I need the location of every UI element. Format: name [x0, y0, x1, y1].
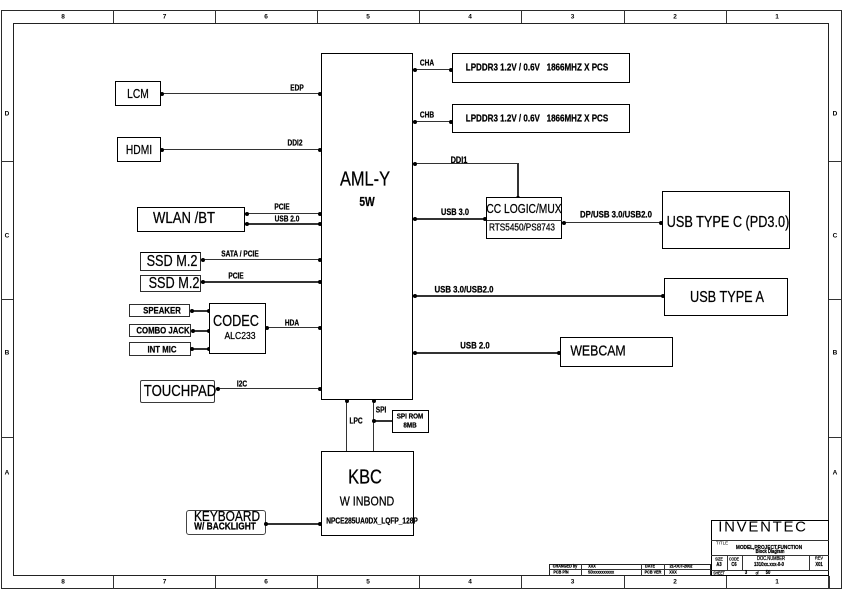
zone number 7 bottom: [163, 579, 167, 586]
zone number 6 top: [264, 13, 268, 20]
wire DP/USB3.0/USB2.0: [562, 222, 662, 223]
label COMBO JACK: [136, 325, 189, 336]
title block X01 value: [815, 562, 822, 568]
junction spi-branch: [372, 419, 376, 423]
zone number 1 top: [775, 13, 779, 20]
label W INBOND: [340, 493, 394, 508]
junction webcam-in: [557, 351, 561, 355]
label WLAN /BT: [153, 210, 215, 228]
junction intmic: [190, 347, 194, 351]
net label USB 3.0/USB2.0: [435, 284, 494, 295]
net label CHB: [420, 110, 434, 119]
revision table pcb pn value: [588, 570, 614, 575]
block SSD M.2 first: [140, 252, 201, 271]
border tick bottom 2: [215, 576, 216, 589]
zone letter A right: [833, 470, 838, 477]
zone number 4 bottom: [468, 579, 472, 586]
net label USB 2.0 webcam: [460, 340, 489, 351]
junction SSD2: [201, 280, 205, 284]
zone number 1 bottom: [775, 579, 779, 586]
wire SPI branch to ROM: [374, 420, 393, 422]
label W/ BACKLIGHT: [194, 522, 256, 533]
net label SPI: [375, 405, 386, 414]
zone number 3 top: [571, 13, 575, 20]
label USB TYPE A: [690, 289, 764, 307]
zone number 2 bottom: [673, 579, 677, 586]
revision table mid horizontal: [549, 569, 711, 570]
zone letter D right: [833, 111, 838, 118]
junction usba-in: [661, 294, 665, 298]
block SSD M.2 second: [140, 275, 201, 292]
label HDMI: [126, 143, 152, 157]
title block divider doc/rev: [809, 555, 810, 570]
border segment bottom right: [828, 576, 829, 589]
border tick bottom 7: [726, 576, 727, 589]
label 8MB: [404, 420, 417, 429]
wire CHA: [413, 69, 452, 70]
block LPDDR3 channel A: [452, 53, 630, 83]
border tick top 4: [419, 10, 420, 23]
junction touchpad: [216, 387, 220, 391]
label RTS5450/PS8743: [489, 223, 555, 234]
title block sheet number 3: [745, 570, 747, 576]
zone number 2 top: [673, 13, 677, 20]
net label USB 3.0: [441, 207, 469, 217]
junction PCIE2-SoC: [318, 280, 322, 284]
revision table divider 3: [664, 564, 665, 576]
wire PCIE to SSD2: [201, 281, 321, 283]
wire USB 3.0/USB2.0: [413, 295, 665, 296]
wire DDI1 horizontal: [413, 163, 519, 164]
title block A3 value: [716, 562, 721, 568]
junction codec-hda: [265, 326, 269, 330]
revision table date value: [670, 564, 693, 569]
zone letter A left: [5, 470, 10, 477]
title block REV label: [815, 556, 823, 561]
zone letter C right: [833, 233, 838, 240]
wire speaker to codec: [191, 310, 210, 312]
title block DOC.NUMBER label: [757, 556, 785, 562]
net label USB 2.0 wlan: [275, 214, 300, 223]
title block SIZE label: [715, 556, 723, 561]
wire USB2.0 to WLAN: [245, 223, 322, 225]
junction codec-spk: [207, 309, 211, 313]
zone letter B left: [5, 350, 10, 357]
junction SATA-SoC: [318, 258, 322, 262]
revision table PCB P/N: [553, 570, 568, 575]
junction kb-kbc: [318, 522, 322, 526]
border tick top 2: [215, 10, 216, 23]
junction chb-SoC: [413, 120, 417, 124]
junction EDP-SoC: [318, 92, 322, 96]
revision table PCB VER: [645, 570, 662, 575]
title block line under logo: [711, 540, 829, 541]
wire combojack to codec: [192, 330, 210, 332]
border tick left 3: [1, 437, 13, 438]
zone number 5 top: [366, 13, 370, 20]
net label DP/USB 3.0/USB2.0: [580, 210, 652, 221]
title block INVENTEC logo: [718, 519, 807, 536]
junction usb3-cc: [483, 217, 487, 221]
block CC LOGIC/MUX U3: [486, 197, 562, 239]
block TOUCHPAD: [140, 380, 215, 403]
junction DDI2-SoC: [318, 148, 322, 152]
title block Block Diagram: [756, 549, 785, 555]
block CODEC U2 ALC233: [209, 303, 266, 354]
zone letter D left: [5, 111, 10, 118]
wire keyboard to KBC: [265, 523, 321, 525]
label INT MIC: [148, 344, 177, 355]
block SPI ROM U4: [392, 410, 429, 433]
junction ddi1-cc: [516, 196, 520, 200]
wire intmic to codec: [191, 348, 209, 350]
net label DDI1: [450, 155, 467, 165]
junction codec-combo: [207, 329, 211, 333]
label SPEAKER: [143, 305, 181, 316]
wire USB 3.0: [413, 218, 487, 220]
zone number 6 bottom: [264, 579, 268, 586]
net label LPC: [349, 417, 362, 426]
label WEBCAM: [570, 343, 625, 360]
wire PCIE to WLAN: [245, 213, 322, 214]
title block C6 value: [731, 562, 736, 568]
block WEBCAM: [560, 337, 673, 367]
zone number 7 top: [163, 13, 167, 20]
title block doc number value: [754, 562, 784, 568]
junction SSD1: [201, 258, 205, 262]
zone number 3 bottom: [571, 579, 575, 586]
block SPEAKER: [129, 304, 190, 317]
junction combo: [191, 329, 195, 333]
border tick top 1: [113, 10, 114, 23]
label SSD M.2 first: [147, 253, 198, 271]
label LPDDR3 A: [466, 63, 608, 74]
junction spi-SoC: [372, 399, 376, 403]
label SSD M.2 second: [149, 275, 200, 293]
border tick right 3: [829, 437, 842, 438]
label AML-Y: [340, 168, 390, 191]
title block SHEET row: [713, 570, 724, 575]
divider CC logic box: [487, 220, 562, 221]
junction typec-in: [659, 221, 663, 225]
junction hda-SoC: [318, 326, 322, 330]
net label HDA: [285, 318, 299, 327]
revision table divider 1: [581, 564, 582, 576]
junction codec-mic: [207, 347, 211, 351]
border tick top 3: [317, 10, 318, 23]
junction kb-out: [264, 522, 268, 526]
zone letter B right: [833, 350, 838, 357]
label 5W: [359, 195, 374, 209]
zone number 8 bottom: [61, 579, 65, 586]
border tick bottom 5: [521, 576, 522, 589]
revision table divider 2: [641, 564, 642, 576]
revision table DATE: [645, 564, 655, 569]
zone number 8 top: [61, 13, 65, 20]
block USB TYPE C connector: [662, 191, 790, 250]
title block sheet total 50: [766, 570, 771, 576]
net label CHA: [420, 59, 434, 68]
junction ddi1-SoC: [413, 162, 417, 166]
block KBC U5: [321, 451, 414, 536]
block LPDDR3 channel B: [452, 104, 630, 133]
junction HDMI-DDI2: [160, 148, 164, 152]
revision table pcb ver value: [669, 570, 677, 575]
wire DDI1 vertical: [517, 164, 518, 198]
junction webcam-SoC: [413, 351, 417, 355]
block USB TYPE A connector: [664, 278, 788, 316]
block LCM: [115, 81, 161, 106]
block WLAN/BT: [137, 207, 245, 232]
junction cc-out: [562, 221, 566, 225]
border tick right 1: [829, 161, 842, 162]
label SPI ROM: [397, 412, 424, 421]
revision table outline: [549, 564, 711, 576]
title block line above size row: [711, 555, 829, 556]
junction lpc-SoC: [345, 399, 349, 403]
wire DDI2: [162, 149, 321, 151]
junction speaker: [190, 309, 194, 313]
junction WLAN-USB2: [245, 222, 249, 226]
label KBC: [348, 466, 382, 489]
border tick right 2: [829, 299, 842, 300]
border tick top 6: [624, 10, 625, 23]
title block divider size/code: [727, 555, 728, 570]
wire SPI vertical: [373, 400, 374, 452]
border tick bottom 1: [113, 576, 114, 589]
junction usb3-SoC: [413, 217, 417, 221]
zone number 5 bottom: [366, 579, 370, 586]
border tick left 1: [1, 161, 13, 162]
title block line above sheet row: [711, 570, 829, 571]
label LCM: [127, 87, 149, 101]
wire CHB: [413, 121, 452, 122]
junction PCIE-SoC: [318, 212, 322, 216]
border tick bottom 4: [419, 576, 420, 589]
wire SATA/PCIE: [201, 259, 321, 260]
block INT MIC: [129, 342, 191, 356]
wire I2C: [216, 388, 321, 389]
junction LCM-EDP: [160, 92, 164, 96]
label KEYBOARD: [194, 509, 260, 525]
title block sheet of: [756, 570, 759, 575]
title block model line: [736, 545, 802, 551]
label ALC233: [224, 330, 255, 342]
border tick top 7: [726, 10, 727, 23]
wire HDA: [266, 327, 322, 329]
net label DDI2: [287, 138, 302, 147]
net label PCIE wlan: [274, 203, 289, 212]
label CC LOGIC/MUX: [486, 202, 561, 216]
junction cha-dram: [449, 68, 453, 72]
border tick left 2: [1, 299, 13, 300]
border tick bottom 6: [624, 576, 625, 589]
label LPDDR3 B: [466, 113, 608, 124]
label NPCE285UA0DX_LQFP_128P: [326, 516, 418, 525]
SoC block U1 AML-Y: [321, 53, 413, 400]
label TOUCHPAD: [143, 383, 215, 401]
title block divider code/doc: [742, 555, 743, 570]
zone letter C left: [5, 233, 10, 240]
zone number 4 top: [468, 13, 472, 20]
net label I2C: [237, 380, 247, 389]
block KEYBOARD: [186, 510, 266, 535]
wire LPC vertical: [346, 400, 348, 452]
junction i2c-SoC: [318, 387, 322, 391]
title block TITLE label: [716, 540, 728, 545]
junction usba-SoC: [413, 294, 417, 298]
block HDMI: [117, 137, 161, 162]
label USB TYPE C (PD3.0): [667, 214, 790, 232]
junction cha-SoC: [413, 68, 417, 72]
title block CODE label: [729, 556, 739, 561]
revision table XXX changed: [588, 564, 596, 569]
wire USB 2.0 webcam: [413, 352, 560, 354]
revision table CHANGED by: [553, 564, 577, 569]
junction WLAN-PCIE: [245, 212, 249, 216]
net label EDP: [290, 84, 303, 93]
title block outline: [711, 520, 829, 576]
junction chb-dram: [449, 120, 453, 124]
junction USB2-SoC: [318, 222, 322, 226]
border tick bottom 3: [317, 576, 318, 589]
label CODEC: [213, 313, 259, 331]
net label PCIE ssd: [228, 272, 243, 281]
border tick top 5: [521, 10, 522, 23]
wire EDP: [162, 93, 321, 95]
net label SATA / PCIE: [221, 249, 258, 258]
block COMBO JACK: [129, 324, 191, 337]
